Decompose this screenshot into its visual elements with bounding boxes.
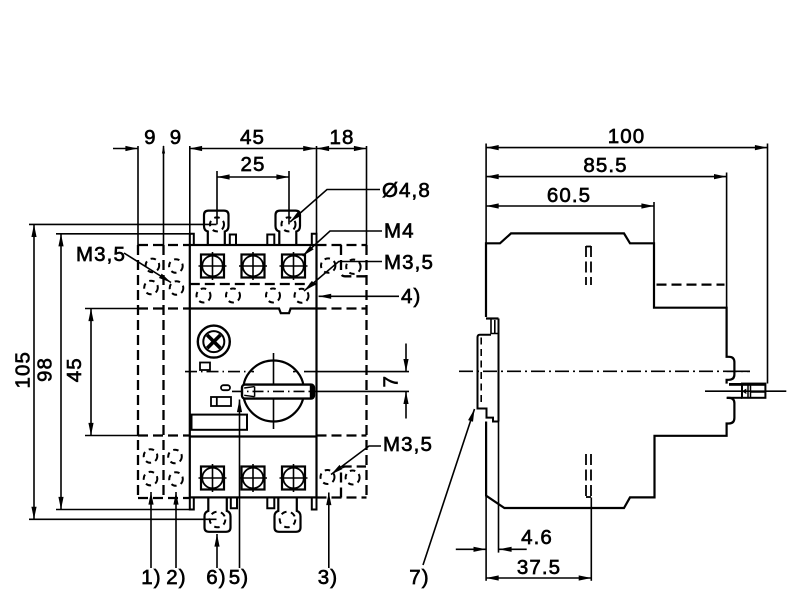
leader 6) <box>216 534 218 568</box>
top mounting lug right <box>276 211 301 245</box>
short center segment at clip <box>727 370 750 372</box>
screw axis line <box>705 390 786 392</box>
svg-text:2): 2) <box>166 566 186 589</box>
dimension 85.5 <box>486 176 726 178</box>
svg-text:5): 5) <box>229 566 249 589</box>
svg-text:Ø4,8: Ø4,8 <box>382 179 431 202</box>
rotary knob circle <box>243 361 304 422</box>
bottom lug left hole <box>210 512 226 528</box>
svg-text:4): 4) <box>401 285 421 308</box>
svg-text:100: 100 <box>608 125 646 148</box>
aux contact circle row: c3 <box>266 289 280 303</box>
leader M4 <box>303 231 382 256</box>
small rect below screw <box>200 363 210 371</box>
extension line x=366.5 <box>366 146 368 246</box>
top corner tab left <box>190 234 194 245</box>
ext line x=591.3 bottom <box>590 498 592 581</box>
svg-text:M3,5: M3,5 <box>384 251 434 274</box>
leader 2) <box>175 492 177 568</box>
right aux dashed bottom edge <box>317 496 367 498</box>
dimension 25 line <box>217 176 289 178</box>
screw head with cross recess <box>198 326 230 358</box>
terminal square 3 top <box>280 252 308 280</box>
leader 5) <box>239 400 241 569</box>
svg-text:M3,5: M3,5 <box>383 433 433 456</box>
ext line x=654 <box>653 202 655 243</box>
svg-text:9: 9 <box>170 126 183 149</box>
left aux block dashed vertical x=138 <box>137 245 139 498</box>
solid line y=436.5 (bottom terminal block top) <box>190 435 317 437</box>
bottom mounting lug left <box>205 497 231 531</box>
svg-text:7): 7) <box>409 566 429 589</box>
svg-text:37.5: 37.5 <box>517 556 561 579</box>
double rect (setting window) <box>211 397 231 406</box>
top foot a <box>230 235 236 246</box>
left aux dashed bottom edge <box>138 497 190 499</box>
aux contact circle row: c4 <box>295 289 309 303</box>
ext line y=519.3 (105 bottom, through lug hole center) <box>29 518 217 520</box>
right aux dashed top edge <box>317 244 367 246</box>
leader 25 left <box>216 171 218 224</box>
dimension 9 (left) arrow <box>113 148 138 150</box>
dimension 60.5 <box>486 205 654 207</box>
leader Ø4,8 <box>290 190 380 223</box>
svg-text:M4: M4 <box>384 220 415 243</box>
DIN rail edge (dashed) <box>480 338 482 407</box>
leader 25 right <box>288 171 290 224</box>
extension line x=163.5 with up arrowhead <box>163 146 165 246</box>
bottom pole slot <box>586 454 591 497</box>
svg-text:3): 3) <box>318 566 338 589</box>
ext line y=233.8 (98 top) <box>56 233 192 235</box>
left aux circles top group <box>144 259 183 295</box>
ext line y=308.5 (45 top) <box>85 308 138 310</box>
svg-text:18: 18 <box>329 126 354 149</box>
right aux dashed y=308.5 <box>317 307 367 309</box>
DIN rail clip top step <box>486 317 499 319</box>
ext line y=509.5 (98 bottom) <box>56 509 192 511</box>
bottom mounting lug right <box>275 497 301 531</box>
bottom lug right hole <box>280 512 296 528</box>
bottom corner tab left <box>190 497 194 509</box>
solid line y=308.5 with notch <box>190 309 317 314</box>
right aux bottom rounded box <box>341 467 366 498</box>
extension line x=138 <box>137 146 139 246</box>
svg-text:45: 45 <box>63 357 86 382</box>
svg-text:M3,5: M3,5 <box>76 243 126 266</box>
terminal square 1 bottom <box>199 464 227 492</box>
leader M3,5 bottom right <box>331 446 381 475</box>
mounting plane line <box>498 319 500 422</box>
left aux dashed y=308.5 <box>138 307 190 309</box>
bottom foot b <box>267 497 274 508</box>
ext line x=486.1 bottom <box>485 496 487 581</box>
right aux bottom circles <box>321 470 335 484</box>
terminal screw block <box>729 383 765 386</box>
svg-text:98: 98 <box>34 357 57 382</box>
terminal square 3 bottom <box>280 464 308 492</box>
extension line x=189 <box>189 146 191 246</box>
top foot b <box>267 235 274 246</box>
side view main outline <box>486 233 734 508</box>
ext line x=486.1 top <box>485 144 487 244</box>
left aux block dashed vertical x=163.5 <box>162 245 164 498</box>
terminal square 2 top <box>239 252 267 280</box>
svg-text:105: 105 <box>11 351 34 389</box>
right aux top circles <box>321 258 335 272</box>
top corner tab right <box>312 234 317 245</box>
top mounting lug left <box>204 211 229 245</box>
leader 1) <box>150 492 152 568</box>
svg-text:45: 45 <box>240 126 265 149</box>
knob handle bar <box>242 385 314 399</box>
left aux circles bottom group <box>144 449 183 486</box>
svg-text:7: 7 <box>380 375 403 388</box>
knob axis center line y=391.4 <box>232 390 312 392</box>
right aux dashed y=435.5 <box>317 434 367 436</box>
svg-text:1): 1) <box>141 566 161 589</box>
leader 7) <box>423 409 475 565</box>
leader 4) <box>319 295 399 297</box>
leader M3,5 right <box>304 262 382 292</box>
ext line x=726.6 <box>726 173 728 308</box>
bottom corner tab right <box>312 497 317 509</box>
svg-text:25: 25 <box>240 153 265 176</box>
device center line y=371.6 (dash-dot) <box>185 371 247 373</box>
dimension 100 <box>486 147 767 149</box>
ext line x=767.5 <box>767 144 769 384</box>
aux contact circle row: c1 <box>197 289 211 303</box>
DIN rail clip outer profile <box>478 335 499 422</box>
ext line y=435.5 (45 bottom) <box>85 435 138 437</box>
dimension 45 (top) line with arrows <box>190 148 316 150</box>
top pole slot <box>586 246 591 285</box>
terminal square 2 bottom <box>239 464 267 492</box>
dashed separator y=284 <box>190 283 317 285</box>
leader 3) <box>328 493 330 569</box>
aux contact circle row: c2 <box>226 289 240 303</box>
dimension 18 (top) line with arrows <box>317 148 367 150</box>
dimension 105 vertical <box>33 224 35 519</box>
terminal square 1 top <box>199 252 227 280</box>
top lug left hole (Ø4.8) <box>210 217 224 231</box>
side center line (dash-dot) <box>459 370 750 372</box>
svg-text:9: 9 <box>144 126 157 149</box>
svg-text:6): 6) <box>206 566 226 589</box>
top lug right hole (Ø4.8) <box>282 217 296 231</box>
dimension 7 (knob offset) <box>405 344 407 372</box>
left aux dashed y=435.5 <box>138 434 190 436</box>
small pill <box>221 385 230 390</box>
dimension 45 vertical <box>90 309 92 436</box>
svg-text:4.6: 4.6 <box>521 526 553 549</box>
hidden dashed edge y=284.6 <box>657 283 725 285</box>
bottom foot a <box>231 497 237 508</box>
extension line x=316.5 <box>316 146 318 246</box>
ext line y=224.4 (105 top, through lug hole center) <box>29 223 217 225</box>
dimension 98 vertical <box>60 234 62 510</box>
knob vertical center line <box>273 353 275 429</box>
right aux block dashed vertical x=366.5 <box>365 245 367 498</box>
svg-text:60.5: 60.5 <box>547 184 591 207</box>
large rect (label field) <box>192 415 248 430</box>
svg-text:85.5: 85.5 <box>583 154 627 177</box>
main body outline <box>190 245 317 497</box>
leader M3,5 left <box>124 253 171 283</box>
left aux dashed top edge <box>138 244 190 246</box>
right aux top rounded box <box>341 245 366 276</box>
